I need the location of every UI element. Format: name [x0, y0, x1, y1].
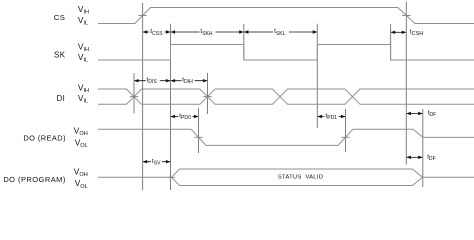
svg-text:CS: CS: [54, 13, 66, 22]
svg-text:DO (READ): DO (READ): [23, 134, 66, 143]
svg-text:DO (PROGRAM): DO (PROGRAM): [3, 175, 66, 184]
svg-text:SK: SK: [54, 51, 66, 60]
svg-text:STATUS VALID: STATUS VALID: [278, 174, 323, 180]
svg-text:DI: DI: [57, 94, 66, 103]
